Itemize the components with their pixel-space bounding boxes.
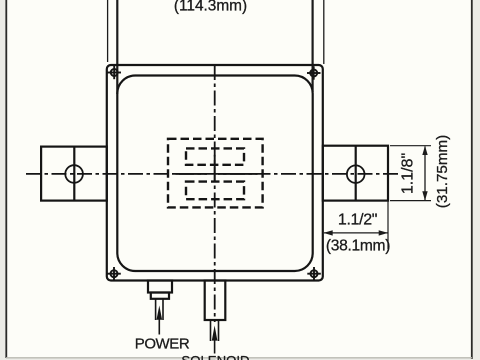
svg-text:(31.75mm): (31.75mm) (434, 135, 451, 208)
svg-text:SOLENOID: SOLENOID (181, 353, 249, 360)
screw top-left (108, 66, 122, 79)
body outer rectangle (107, 65, 323, 281)
extension line right inner (cover side) (312, 0, 314, 92)
svg-text:(38.1mm): (38.1mm) (326, 238, 390, 255)
svg-text:POWER: POWER (135, 336, 190, 353)
arrowhead down (422, 191, 427, 200)
hidden detail upper dashed rect (186, 148, 244, 164)
solenoid connector block (205, 281, 226, 321)
hidden detail outer dashed rect (168, 139, 263, 208)
svg-text:(114.3mm): (114.3mm) (174, 0, 247, 14)
svg-text:1.1/2": 1.1/2" (338, 212, 377, 229)
centerline solid segment horizontal left of center (176, 173, 208, 175)
vertical centerline (214, 65, 216, 322)
power gland side lines (155, 299, 157, 320)
cover rounded rectangle (117, 76, 312, 272)
arrowhead left (323, 230, 332, 235)
left mounting bracket (41, 147, 107, 201)
extension line left outer (107, 0, 109, 62)
centerline solid segment horizontal right of center (218, 173, 258, 175)
bottom dimension: extension line right vertical (387, 201, 389, 249)
power connector wide block (148, 281, 172, 293)
arrowhead up (422, 146, 427, 155)
solenoid gland side lines (210, 320, 212, 341)
extension line right outer (323, 0, 325, 64)
right bracket divider (355, 146, 357, 201)
frame left line (5, 0, 7, 358)
arrowhead right (379, 230, 388, 235)
extension line left inner (cover side) (116, 0, 118, 94)
screw top-right (307, 66, 321, 79)
frame right line (471, 0, 473, 359)
right dimension: extension line top (390, 145, 431, 147)
power connector narrow block (151, 293, 169, 299)
horizontal centerline (26, 173, 398, 175)
solenoid leader arrow (212, 326, 218, 341)
right mounting bracket (323, 146, 388, 201)
vertical dimension line 1.1/8" (424, 147, 426, 201)
hidden detail lower dashed rect (186, 182, 244, 200)
screw bottom-left (107, 267, 121, 280)
right bracket hole (347, 165, 365, 183)
left bracket divider (73, 147, 75, 201)
screw bottom-right (307, 267, 321, 280)
left bracket hole (65, 165, 83, 183)
svg-text:1.1/8": 1.1/8" (400, 153, 417, 194)
horizontal dimension line 1.1/2" (324, 232, 388, 234)
centerline solid segment vertical through center (214, 155, 216, 182)
frame bottom faint line (6, 357, 472, 359)
power leader arrow (157, 306, 163, 320)
right dimension: extension line bottom (390, 200, 431, 202)
